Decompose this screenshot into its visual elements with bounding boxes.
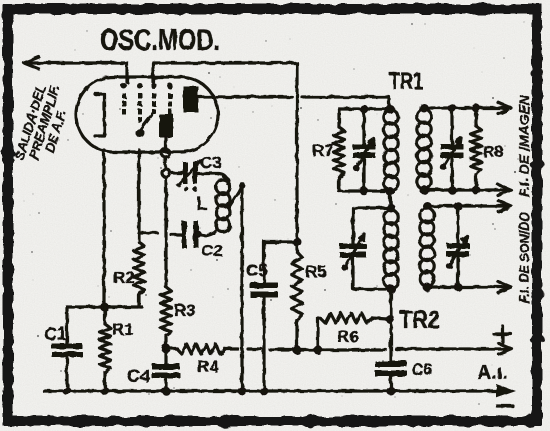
svg-text:C3: C3 <box>200 153 222 172</box>
node: osc grid junction ring <box>162 157 170 177</box>
capacitor C4 <box>153 348 180 391</box>
svg-text:A.ı.: A.ı. <box>477 362 508 384</box>
tube V1 grid g4 <box>167 83 173 115</box>
net + (B+) <box>494 326 511 342</box>
trimmer capacitor (TR2 secondary) <box>446 206 469 287</box>
TR2 secondary coil <box>420 208 434 286</box>
svg-text:TR2: TR2 <box>399 306 440 334</box>
tube V1 cathode <box>95 94 105 136</box>
net - (negative) <box>497 404 513 407</box>
svg-text:R5: R5 <box>305 262 327 281</box>
trimmer capacitor C3 <box>170 161 227 191</box>
tube pin ring <box>162 149 170 157</box>
wire: L tap down to chassis bus <box>238 187 246 395</box>
TR1 primary rails <box>339 105 394 196</box>
tube V1 plate (osc) <box>159 114 173 149</box>
trimmer capacitor (TR1 primary) <box>353 109 375 191</box>
svg-text:R4: R4 <box>197 357 219 376</box>
L adjust arrow + tap <box>229 182 245 207</box>
tube V1 grid g2 <box>136 83 145 138</box>
svg-text:TR1: TR1 <box>389 68 423 95</box>
svg-text:C2: C2 <box>201 241 223 260</box>
resistor R2 <box>134 242 145 307</box>
svg-text:R2: R2 <box>113 268 135 287</box>
node R3/R4/C4 junction <box>162 344 170 352</box>
TR2 secondary rails with output arrows <box>423 201 511 293</box>
svg-text:L: L <box>196 194 208 215</box>
wire: junction down to R3 <box>164 177 167 287</box>
inductor L (osc coil) <box>198 177 230 236</box>
wire: TR2 primary bottom to R6/C6 junction <box>389 289 392 319</box>
wire: plate to TR1 primary (hops over R5 drop wire) <box>218 97 389 108</box>
svg-text:C5: C5 <box>246 261 268 280</box>
svg-text:R1: R1 <box>112 320 134 339</box>
wire: TR1 primary bottom to TR2 primary top <box>390 191 391 208</box>
resistor R7 <box>334 109 345 191</box>
wire: B+ line with hop gaps, to + arrow <box>225 344 512 355</box>
tube V1 plate (mixer) <box>183 86 222 112</box>
resistor R5 <box>292 242 303 354</box>
resistor R4 <box>166 344 225 354</box>
tube V1 OSC.MOD. envelope <box>76 77 218 152</box>
node screen junction <box>293 238 301 246</box>
svg-text:R3: R3 <box>174 301 196 320</box>
wire: bottom bus (negative) with solid arrowhead <box>44 384 516 398</box>
capacitor C6 <box>376 319 407 395</box>
svg-text:R7: R7 <box>312 141 334 160</box>
trimmer capacitor (TR2 primary) <box>340 234 366 271</box>
TR1 secondary coil <box>417 109 431 189</box>
wire: grid3 net to R5/C5 junction <box>153 63 297 238</box>
wire: input from preamp to grid, with left arrowhead <box>24 57 127 82</box>
TR2 primary coil <box>384 210 398 288</box>
svg-text:F.I. DE SONIDO: F.I. DE SONIDO <box>517 212 532 303</box>
bus junction dots <box>63 387 170 395</box>
svg-text:R6: R6 <box>337 327 359 346</box>
svg-text:R8: R8 <box>483 144 504 161</box>
tube V1 grid g3 <box>151 83 157 115</box>
tube V1 grid g1 <box>121 83 127 115</box>
svg-text:F.I. DE IMAGEN: F.I. DE IMAGEN <box>517 95 532 197</box>
capacitor C1 <box>52 307 82 391</box>
TR2 primary rails <box>353 204 395 293</box>
svg-text:C4: C4 <box>127 366 150 386</box>
resistor R8 <box>471 108 482 190</box>
wire: cathode down to bias junction <box>67 150 142 311</box>
svg-text:C6: C6 <box>411 360 433 379</box>
resistor R1 <box>100 307 111 391</box>
capacitor C2 <box>171 221 201 248</box>
wire: tube pin to R2, stub to C2 <box>139 150 157 242</box>
TR1 secondary rails with output arrows <box>420 103 511 196</box>
node SALIDA DEL PREAMPLIF DE A.F. <box>12 79 76 169</box>
TR1 primary coil <box>384 110 398 190</box>
trimmer capacitor (TR1 secondary) <box>440 108 463 190</box>
svg-text:OSC.MOD.: OSC.MOD. <box>100 22 220 57</box>
svg-text:C1: C1 <box>44 324 67 344</box>
resistor R6 <box>314 313 394 354</box>
tube V1 internal grid-to-pin wire <box>141 112 154 129</box>
capacitor C5 <box>251 242 298 395</box>
resistor R3 <box>161 287 172 348</box>
